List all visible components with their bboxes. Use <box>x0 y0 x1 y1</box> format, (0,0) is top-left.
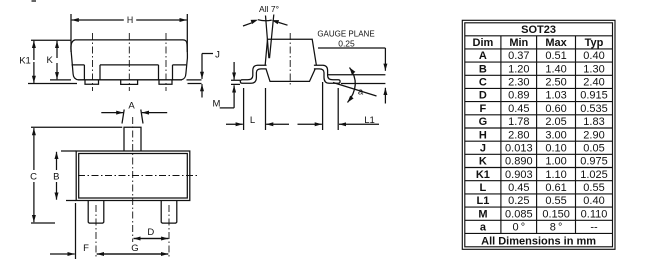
svg-text:J: J <box>215 49 220 60</box>
svg-text:H: H <box>479 129 487 141</box>
table rows <box>476 50 490 233</box>
svg-text:0.51: 0.51 <box>545 50 566 62</box>
svg-text:Dim: Dim <box>473 37 494 49</box>
svg-text:2.80: 2.80 <box>508 129 529 141</box>
svg-text:L1: L1 <box>476 195 489 207</box>
L1 extension lines <box>323 82 339 130</box>
svg-text:0.60: 0.60 <box>545 103 566 115</box>
svg-text:0.61: 0.61 <box>545 182 566 194</box>
package body bottom view inner <box>79 154 188 199</box>
svg-text:a: a <box>358 87 364 98</box>
draft angle dimension leaders and arc <box>243 20 288 26</box>
svg-text:All Dimensions in mm: All Dimensions in mm <box>481 235 596 247</box>
svg-text:1.20: 1.20 <box>508 63 529 75</box>
svg-text:a: a <box>480 222 487 234</box>
svg-text:F: F <box>480 103 487 115</box>
svg-text:1.10: 1.10 <box>545 169 566 181</box>
svg-text:G: G <box>479 116 488 128</box>
svg-text:SOT23: SOT23 <box>521 24 556 36</box>
svg-text:H: H <box>127 15 133 25</box>
svg-text:Min: Min <box>509 37 528 49</box>
angle a arrowhead bottom <box>348 96 354 103</box>
angle a arc <box>348 68 356 103</box>
svg-text:0.890: 0.890 <box>505 156 533 168</box>
dimension L arrows <box>226 123 243 125</box>
svg-text:K: K <box>47 55 54 66</box>
svg-text:--: -- <box>590 222 598 234</box>
centerline left bottom lead <box>95 205 97 257</box>
table outer border <box>462 20 615 249</box>
svg-text:1.83: 1.83 <box>583 116 604 128</box>
svg-text:C: C <box>479 77 487 89</box>
svg-text:0.915: 0.915 <box>580 90 608 102</box>
table inner border <box>465 23 613 247</box>
svg-text:0.25: 0.25 <box>338 39 355 49</box>
dimension F <box>50 253 75 255</box>
middle lead foot <box>121 80 138 85</box>
svg-text:K1: K1 <box>476 169 490 181</box>
right lead foot <box>159 80 172 84</box>
svg-text:0.37: 0.37 <box>508 50 529 62</box>
right lead side view <box>159 65 173 80</box>
body bottom edge <box>78 79 182 81</box>
svg-text:L: L <box>250 115 255 126</box>
dimension M <box>231 80 240 84</box>
table row lines <box>465 36 613 234</box>
svg-text:0.085: 0.085 <box>505 208 533 220</box>
svg-text:0.110: 0.110 <box>581 208 608 220</box>
svg-text:F: F <box>83 243 89 254</box>
svg-text:0.05: 0.05 <box>583 142 604 154</box>
svg-text:0.535: 0.535 <box>580 103 608 115</box>
angle a arrowhead top <box>350 68 356 75</box>
svg-text:0.45: 0.45 <box>508 103 529 115</box>
svg-text:8 °: 8 ° <box>550 222 563 234</box>
draft angle lines 7deg <box>266 15 274 59</box>
0.25 dimension <box>318 47 385 49</box>
centerline right lead <box>165 33 167 91</box>
svg-text:2.40: 2.40 <box>583 77 604 89</box>
package body end view <box>265 39 316 81</box>
svg-text:Max: Max <box>545 37 567 49</box>
svg-text:0.903: 0.903 <box>505 169 533 181</box>
svg-text:B: B <box>479 63 487 75</box>
dimension D <box>134 238 169 240</box>
foot extension lines right <box>341 83 385 85</box>
svg-text:0.40: 0.40 <box>583 50 604 62</box>
package body bottom view outer <box>76 151 190 201</box>
gauge plane line <box>327 74 385 76</box>
dimension A <box>122 110 143 124</box>
svg-text:2.90: 2.90 <box>583 129 604 141</box>
table column lines <box>501 36 576 234</box>
right gull-wing lead <box>314 65 340 83</box>
angle a slant line <box>333 83 377 97</box>
svg-text:G: G <box>131 243 138 254</box>
dimension G <box>97 253 168 255</box>
draft angle arrowhead right <box>272 20 279 24</box>
svg-text:0 °: 0 ° <box>512 222 525 234</box>
dimension K1 <box>31 39 71 41</box>
svg-text:0.10: 0.10 <box>545 142 566 154</box>
svg-text:0.55: 0.55 <box>583 182 604 194</box>
svg-text:K: K <box>479 156 487 168</box>
svg-text:1.78: 1.78 <box>508 116 529 128</box>
seating strip right <box>187 80 202 84</box>
svg-text:1.30: 1.30 <box>583 63 604 75</box>
centerline middle lead <box>128 33 130 91</box>
dimension J <box>202 54 213 56</box>
svg-text:A: A <box>479 50 487 62</box>
svg-text:0.150: 0.150 <box>542 208 570 220</box>
svg-text:M: M <box>213 99 221 110</box>
centerline end view <box>289 33 291 85</box>
svg-text:3.00: 3.00 <box>545 129 566 141</box>
seating strip left <box>28 83 77 85</box>
svg-text:2.05: 2.05 <box>545 116 566 128</box>
dimension C <box>33 128 35 170</box>
svg-text:K1: K1 <box>19 56 31 67</box>
svg-text:0.40: 0.40 <box>583 195 604 207</box>
center tab lead <box>124 127 141 151</box>
svg-text:1.025: 1.025 <box>580 169 608 181</box>
svg-text:1.03: 1.03 <box>545 90 566 102</box>
dimension B <box>61 151 76 201</box>
svg-text:D: D <box>479 90 487 102</box>
dimension K <box>50 79 71 81</box>
svg-text:B: B <box>53 171 59 182</box>
svg-text:2.30: 2.30 <box>508 77 529 89</box>
svg-text:2.50: 2.50 <box>545 77 566 89</box>
svg-text:C: C <box>30 171 37 182</box>
svg-text:0.45: 0.45 <box>508 182 529 194</box>
left lead side view <box>84 65 100 80</box>
svg-text:0.55: 0.55 <box>545 195 566 207</box>
svg-text:0.013: 0.013 <box>505 142 533 154</box>
svg-text:0.25: 0.25 <box>508 195 529 207</box>
mold step line <box>72 64 187 66</box>
stray scan mark top edge <box>32 0 37 2</box>
svg-text:1.40: 1.40 <box>545 63 566 75</box>
L extension lines <box>244 88 266 130</box>
dimension L1 arrows <box>339 123 379 125</box>
svg-text:M: M <box>478 208 487 220</box>
horizontal centerline bottom view <box>78 175 199 177</box>
left lead foot <box>85 80 99 84</box>
svg-text:L1: L1 <box>364 115 375 126</box>
svg-text:0.89: 0.89 <box>508 90 529 102</box>
svg-text:L: L <box>480 182 487 194</box>
svg-text:Typ: Typ <box>585 37 604 49</box>
left bottom lead <box>88 201 104 223</box>
vertical centerline bottom view <box>132 117 134 242</box>
centerline left lead <box>92 33 94 91</box>
body edge extension for F <box>75 203 77 259</box>
dimension H <box>71 14 187 52</box>
svg-text:D: D <box>147 227 154 238</box>
right bottom lead <box>161 201 177 223</box>
left gull-wing lead <box>240 65 266 83</box>
centerline right bottom lead <box>168 205 170 257</box>
svg-text:1.00: 1.00 <box>545 156 566 168</box>
draft angle arrowhead left <box>251 20 258 24</box>
svg-text:A: A <box>128 100 135 111</box>
svg-text:All 7°: All 7° <box>259 4 279 14</box>
svg-text:0.975: 0.975 <box>580 156 608 168</box>
package body side view <box>71 40 187 80</box>
svg-text:GAUGE PLANE: GAUGE PLANE <box>317 30 374 39</box>
C top tick line <box>31 126 122 128</box>
svg-text:J: J <box>480 142 486 154</box>
